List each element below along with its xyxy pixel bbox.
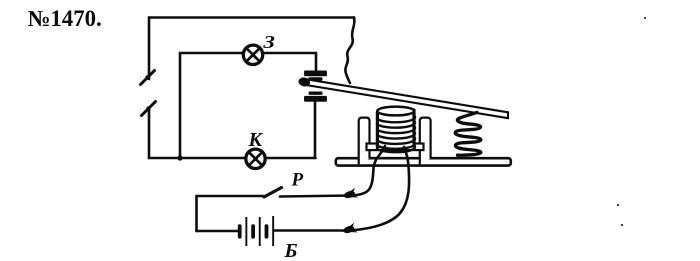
svg-text:К: К	[248, 129, 264, 151]
svg-text:З: З	[262, 32, 275, 52]
svg-text:Б: Б	[284, 240, 298, 261]
svg-text:Р: Р	[291, 170, 304, 191]
svg-text:№1470.: №1470.	[28, 6, 102, 31]
